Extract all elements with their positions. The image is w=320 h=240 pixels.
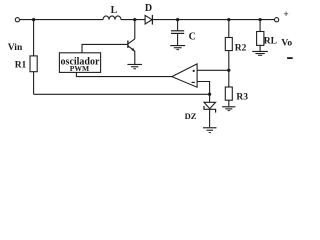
- zener diode DZ bar: [204, 106, 216, 113]
- svg-text:L: L: [111, 5, 118, 16]
- wire op-amp upper input to divider: [197, 69, 229, 71]
- node zener junction: [208, 93, 211, 96]
- svg-text:RL: RL: [264, 37, 277, 47]
- svg-text:+: +: [284, 9, 289, 19]
- wire top rail right segment: [152, 19, 274, 21]
- wire bottom feedback rail: [34, 93, 210, 95]
- transistor Q1 emitter arm: [129, 46, 135, 64]
- resistor R1: [30, 56, 37, 72]
- wire R2 to R3: [228, 51, 230, 87]
- svg-text:Vin: Vin: [8, 43, 23, 53]
- ground under zener: [203, 127, 217, 133]
- resistor RL: [257, 32, 264, 46]
- wire oscillator output to base: [82, 44, 127, 52]
- wire RL to ground: [259, 45, 261, 51]
- capacitor C plates: [171, 30, 184, 34]
- transistor Q1 collector arm: [129, 39, 135, 44]
- ground under R3: [222, 106, 235, 111]
- wire top rail between L and D: [121, 19, 145, 21]
- zener diode DZ triangle: [204, 102, 216, 108]
- wire junction down to transistor collector: [134, 20, 136, 39]
- svg-text:DZ: DZ: [185, 111, 197, 121]
- transistor Q1 emitter arrowhead: [131, 48, 135, 52]
- node R2 junction top: [227, 18, 230, 21]
- wire capacitor to ground: [177, 34, 179, 45]
- node RL junction top: [258, 18, 261, 21]
- diode D cathode bar: [151, 15, 153, 25]
- node collector junction: [133, 18, 136, 21]
- op-amp inverting mark: [192, 82, 195, 83]
- op-amp U2 triangle: [172, 64, 197, 87]
- resistor R2: [225, 38, 232, 51]
- wire op-amp output to oscillator: [76, 72, 171, 76]
- wire top rail left segment: [20, 19, 103, 21]
- svg-text:PWM: PWM: [70, 64, 89, 73]
- ground under capacitor: [170, 45, 185, 50]
- svg-text:Vo: Vo: [281, 38, 292, 48]
- svg-text:D: D: [145, 3, 152, 14]
- wire junction down to capacitor: [177, 20, 179, 31]
- wire op-amp lower input to zener: [197, 82, 210, 95]
- wire junction down to R2: [228, 20, 230, 38]
- svg-text:R1: R1: [15, 61, 27, 71]
- wire R3 to ground: [228, 100, 230, 106]
- oscillator box U1: [59, 53, 100, 73]
- svg-text:C: C: [189, 32, 196, 43]
- node Vin junction: [32, 18, 35, 21]
- svg-text:R2: R2: [235, 43, 247, 53]
- node divider junction: [227, 69, 230, 72]
- node capacitor junction: [176, 18, 179, 21]
- wire R1 bottom down: [33, 72, 35, 95]
- input terminal circle left: [15, 18, 19, 22]
- label minus: [287, 57, 293, 59]
- ground under transistor emitter: [127, 64, 142, 69]
- resistor R3: [225, 87, 232, 100]
- wire Vin junction down to R1: [33, 20, 35, 56]
- svg-text:R3: R3: [236, 93, 248, 103]
- transistor Q1 base bar: [127, 41, 129, 48]
- wire junction to zener: [209, 94, 211, 102]
- op-amp non-inverting mark: [193, 70, 195, 72]
- inductor L: [103, 16, 121, 20]
- wire zener to ground: [209, 109, 211, 127]
- ground under RL: [252, 51, 268, 56]
- output terminal circle right: [275, 18, 279, 22]
- diode D triangle: [145, 15, 152, 24]
- wire junction down to RL: [259, 20, 261, 32]
